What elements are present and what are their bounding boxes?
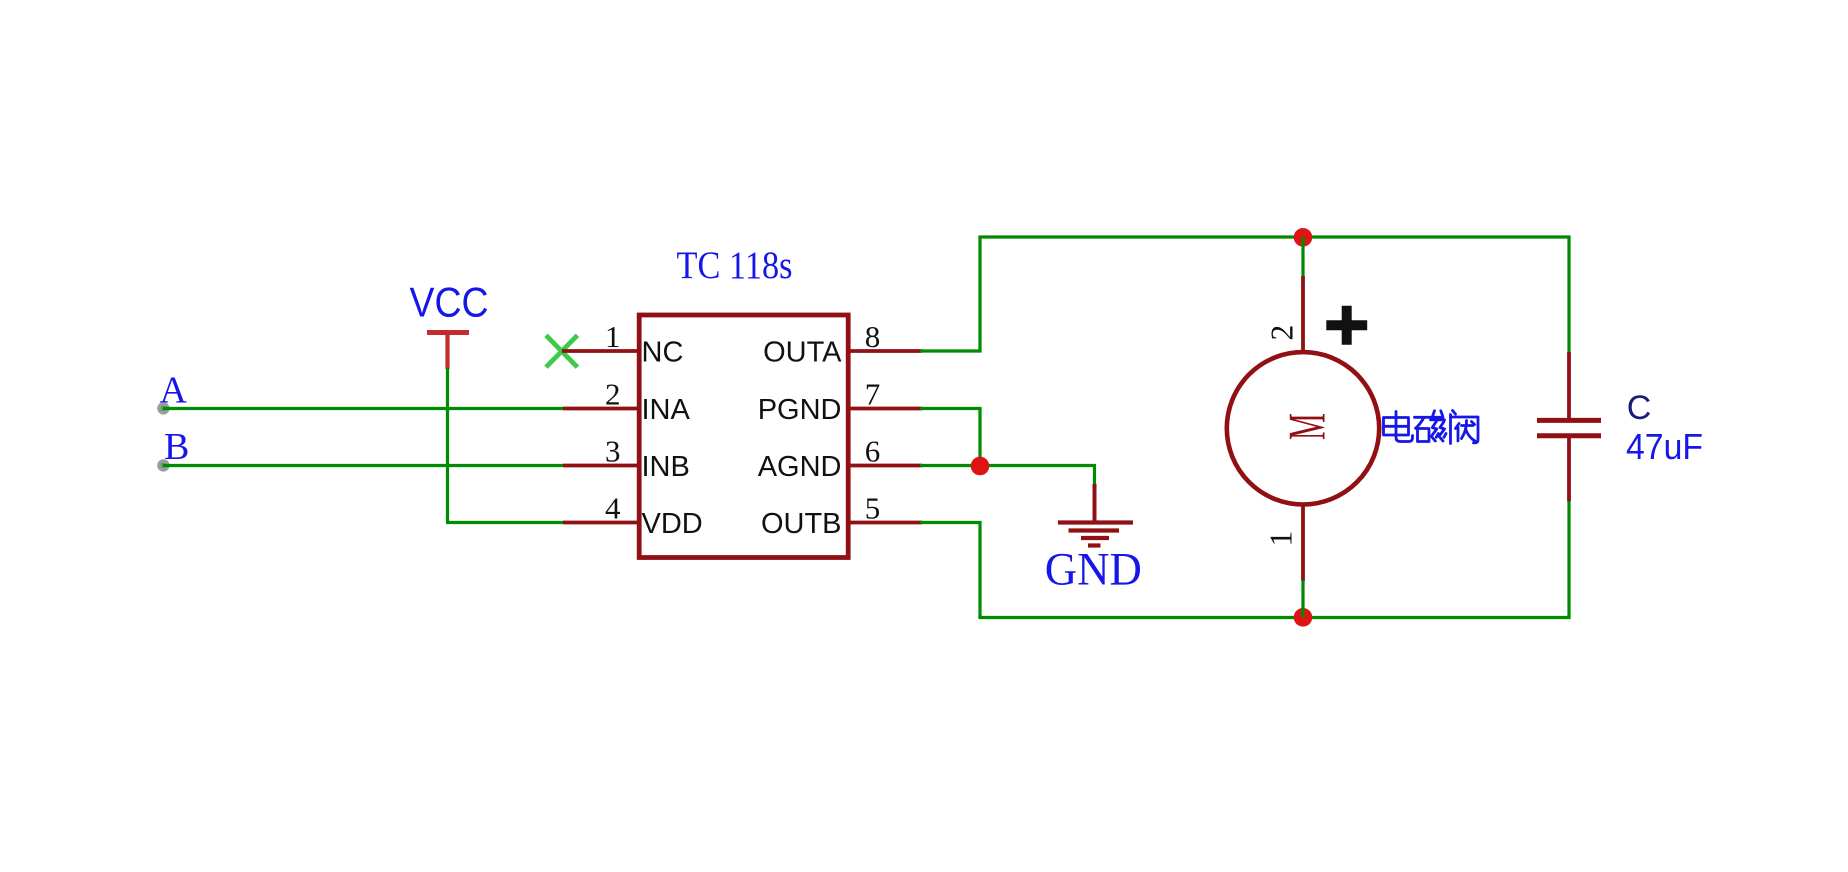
motor pin1 wire [1301,580,1304,618]
pin 1 NC stub [562,349,639,353]
wire pin7 down [920,409,980,468]
ground bar2 [1069,528,1120,532]
wire B to pin3 [163,464,564,467]
wire A to pin2 [163,407,564,410]
ground symbol stem [1093,484,1097,521]
VCC symbol [427,333,469,370]
junction pin7/pin6 [971,457,990,476]
svg-text:7: 7 [865,377,881,412]
ground bar4 [1088,543,1101,547]
wire VDD [446,521,564,524]
svg-text:NC: NC [642,337,684,369]
motor pin 1 stub [1301,505,1305,581]
junction motor top [1294,228,1313,247]
svg-text:2: 2 [605,377,621,412]
wire VCC vertical [446,368,449,523]
wire pin8 to top bus [920,237,980,351]
plus polarity mark [1326,306,1367,345]
svg-text:VDD: VDD [642,508,703,540]
wire pin6 to GND [920,466,1095,486]
svg-text:5: 5 [865,491,881,526]
pin 7 PGND stub [848,407,922,411]
wire bottom bus [978,616,1570,619]
svg-text:47uF: 47uF [1626,426,1703,467]
terminal A [157,402,169,414]
char fa [1451,411,1479,444]
wire pin5 to bottom bus [920,523,980,618]
label diancifa (solenoid valve) [1384,411,1479,444]
svg-text:VCC: VCC [410,279,489,326]
motor body circle [1227,352,1379,504]
no-connect X on pin1 [546,335,577,367]
pin 3 INB stub [563,464,639,468]
motor M1 pin2 wire [1301,237,1304,277]
svg-text:AGND: AGND [758,451,842,483]
svg-text:6: 6 [865,434,881,469]
char ci [1415,411,1447,442]
motor pin 2 stub [1301,276,1305,352]
capacitor plate bottom [1537,433,1601,438]
svg-text:TC 118s: TC 118s [677,244,793,287]
svg-text:1: 1 [1263,531,1298,547]
svg-text:INB: INB [642,451,690,483]
svg-text:C: C [1627,389,1652,427]
ground bar3 [1081,536,1109,540]
pin 4 VDD stub [563,521,639,525]
terminal B [157,459,169,471]
wire top bus [978,235,1570,238]
capacitor bottom lead [1567,438,1571,502]
svg-text:M: M [1279,413,1337,440]
pin 6 AGND stub [848,464,922,468]
capacitor plate top [1537,418,1601,423]
svg-text:3: 3 [605,434,621,469]
char dian [1384,412,1413,442]
svg-text:GND: GND [1045,544,1142,596]
svg-text:2: 2 [1264,325,1299,341]
capacitor C1 top wire [1567,237,1570,353]
IC body [639,315,848,558]
svg-text:OUTA: OUTA [763,337,842,369]
svg-text:1: 1 [605,319,621,354]
junction motor bottom [1294,608,1313,627]
svg-text:OUTB: OUTB [761,508,842,540]
capacitor top lead [1567,352,1571,418]
svg-text:PGND: PGND [758,394,842,426]
ground bar1 [1058,520,1133,524]
svg-text:4: 4 [605,491,621,526]
pin 8 OUTA stub [848,349,922,353]
pin 5 OUTB stub [848,521,922,525]
svg-text:8: 8 [865,319,881,354]
svg-text:INA: INA [642,394,691,426]
pin 2 INA stub [563,407,639,411]
capacitor bottom wire [1567,501,1570,618]
